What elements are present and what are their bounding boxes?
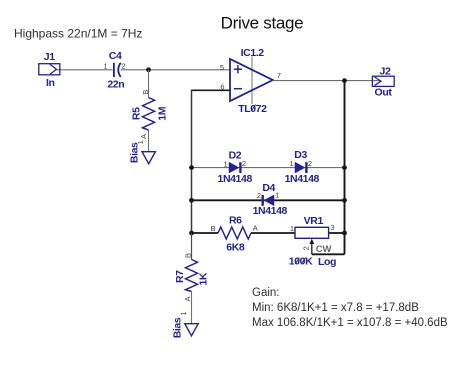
wire: D4 row (192, 199, 345, 201)
slash of zero in TL072 (252, 105, 256, 111)
wire: C4 to op-amp pin 5 (121, 69, 230, 71)
resistor R6 (210, 215, 257, 254)
svg-text:1: 1 (103, 62, 107, 71)
svg-text:J2: J2 (380, 66, 391, 78)
wire: R6 to VR1 pin 1 (251, 232, 295, 234)
svg-text:1: 1 (179, 311, 188, 315)
svg-text:22n: 22n (107, 78, 124, 90)
svg-text:Highpass 22n/1M = 7Hz: Highpass 22n/1M = 7Hz (14, 27, 142, 41)
svg-text:1N4148: 1N4148 (253, 205, 288, 217)
Bias net symbol (lower) (171, 311, 198, 338)
svg-text:A: A (139, 134, 148, 139)
svg-text:5: 5 (220, 63, 224, 72)
node: D4 row left junction (189, 198, 194, 203)
svg-text:C4: C4 (109, 50, 122, 62)
svg-text:R6: R6 (229, 215, 242, 227)
node: D3 row right junction (342, 165, 347, 170)
diode D4 (253, 182, 288, 217)
svg-text:In: In (46, 77, 55, 89)
svg-text:VR1: VR1 (304, 215, 324, 227)
svg-text:1N4148: 1N4148 (218, 173, 253, 185)
connector J1 (39, 51, 60, 89)
wire: D2/D3 row (192, 167, 345, 169)
diode D3 (285, 149, 320, 185)
svg-text:D4: D4 (262, 182, 275, 194)
svg-text:1N4148: 1N4148 (285, 173, 320, 185)
connector J2 (372, 66, 394, 99)
svg-text:7: 7 (277, 71, 281, 80)
svg-text:A: A (183, 296, 192, 301)
svg-text:100K: 100K (289, 256, 313, 268)
svg-text:3: 3 (330, 223, 334, 232)
wire: output column down (344, 81, 346, 255)
node: D2 row left junction (189, 165, 194, 170)
wire: R7 to Bias symbol (191, 292, 193, 324)
resistor R7 (174, 253, 210, 302)
wire: VR1 pin 3 to output column (329, 232, 345, 234)
svg-text:1K: 1K (198, 272, 210, 285)
node: junction C4/R5 (146, 67, 151, 72)
svg-text:1: 1 (290, 159, 294, 168)
wire: op-amp output to J2 (273, 80, 381, 82)
svg-text:Log: Log (318, 256, 336, 268)
svg-text:1M: 1M (156, 106, 168, 120)
node: output junction (342, 78, 347, 83)
svg-text:R7: R7 (174, 270, 186, 283)
svg-text:B: B (184, 253, 193, 258)
Bias net symbol (upper) (129, 140, 156, 164)
wire: R5 to Bias symbol (148, 130, 150, 152)
wire: op-amp pin 6 stub (192, 89, 231, 91)
svg-text:2: 2 (308, 159, 312, 168)
svg-text:Bias: Bias (171, 317, 183, 338)
svg-text:Drive stage: Drive stage (221, 14, 304, 33)
svg-text:2: 2 (302, 246, 311, 250)
svg-text:1: 1 (290, 224, 294, 233)
node: VR1 pin3 junction (342, 231, 347, 236)
slashes of zeros in 100K (295, 258, 299, 264)
svg-text:1: 1 (136, 140, 145, 144)
node: R6 row left junction (189, 231, 194, 236)
svg-text:2: 2 (257, 191, 261, 200)
node: D4 row right junction (342, 198, 347, 203)
svg-text:D3: D3 (294, 149, 307, 161)
svg-text:2: 2 (121, 62, 125, 71)
svg-text:Max 106.8K/1K+1 = x107.8 = +40: Max 106.8K/1K+1 = x107.8 = +40.6dB (252, 317, 448, 329)
potentiometer VR1 (289, 215, 336, 268)
op-amp IC1.2 TL072 (220, 47, 281, 115)
wire: feedback column (191, 90, 193, 234)
svg-text:Out: Out (375, 87, 393, 99)
svg-text:1: 1 (275, 191, 279, 200)
resistor R5 (130, 90, 168, 139)
svg-text:J1: J1 (44, 51, 55, 63)
svg-text:2: 2 (242, 159, 246, 168)
svg-text:Min: 6K8/1K+1 = x7.8 = +17.8dB: Min: 6K8/1K+1 = x7.8 = +17.8dB (252, 302, 419, 314)
svg-text:IC1.2: IC1.2 (241, 47, 265, 59)
svg-text:Gain:: Gain: (252, 287, 280, 299)
wire: R6 node down to R7 (191, 233, 193, 260)
wire: VR1 wiper bottom link (312, 253, 345, 255)
svg-text:A: A (253, 223, 258, 232)
svg-text:B: B (210, 224, 215, 233)
wire: junction down to R5 (148, 70, 150, 98)
svg-text:1: 1 (224, 159, 228, 168)
gain note text block (252, 287, 448, 329)
svg-text:6K8: 6K8 (226, 241, 245, 253)
svg-text:B: B (141, 90, 150, 95)
wire: R6 row left (192, 232, 219, 234)
diode D2 (218, 150, 253, 186)
capacitor C4 (103, 50, 125, 91)
wire: input net J1 to C4 (57, 69, 113, 71)
svg-text:D2: D2 (229, 150, 242, 162)
svg-text:R5: R5 (130, 107, 142, 120)
